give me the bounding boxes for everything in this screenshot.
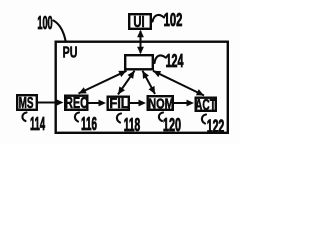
wire FIL to NOM — [130, 102, 143, 104]
leader curve for 100 — [54, 21, 66, 41]
svg-text:NOM: NOM — [148, 95, 174, 112]
arrowhead into REC left (from MS) — [56, 99, 64, 106]
arrowhead down into ACT top — [196, 89, 204, 95]
svg-text:120: 120 — [163, 115, 181, 136]
svg-text:PU: PU — [63, 43, 78, 61]
wire 124 to ACT (fan, double-headed) — [153, 71, 204, 96]
svg-text:116: 116 — [81, 115, 97, 135]
svg-text:124: 124 — [166, 52, 184, 71]
arrowhead into ACT left (from NOM) — [187, 100, 195, 107]
arrowhead up into 124 bottom (ACT fan) — [153, 71, 161, 77]
wire REC to FIL — [89, 102, 103, 104]
svg-text:REC: REC — [65, 94, 88, 111]
svg-text:122: 122 — [207, 117, 225, 138]
block PU (processing unit) outer box — [56, 42, 228, 133]
wire MS to REC — [38, 102, 60, 104]
wire UI to 124 (vertical, double-headed) — [140, 31, 142, 53]
leader hook for 118 — [117, 114, 121, 123]
block 124 — [125, 55, 153, 69]
arrowhead down into NOM top — [149, 86, 156, 94]
arrowhead into NOM left (from FIL) — [139, 100, 147, 107]
arrowhead into FIL left (from REC) — [99, 100, 107, 107]
wire NOM to ACT — [174, 102, 191, 104]
wire 124 to FIL (fan, double-headed) — [118, 71, 135, 95]
svg-text:ACT: ACT — [195, 96, 216, 114]
leader hook for 114 — [22, 113, 26, 122]
arrowhead up into 124 bottom (FIL fan) — [128, 71, 135, 79]
svg-text:MS: MS — [19, 94, 34, 112]
block ACT 122 — [196, 98, 216, 111]
arrowhead down into 124 top — [137, 47, 144, 55]
leader curve for 124 — [155, 55, 166, 63]
block MS 114 — [17, 95, 37, 110]
arrowhead up into 124 bottom (REC fan) — [118, 71, 126, 77]
leader curve for 102 — [153, 15, 165, 22]
block NOM 120 — [148, 96, 173, 110]
svg-text:100: 100 — [37, 14, 52, 34]
svg-text:118: 118 — [124, 116, 140, 136]
leader hook for 120 — [159, 113, 163, 122]
svg-text:114: 114 — [30, 115, 46, 135]
leader hook for 116 — [75, 113, 79, 122]
arrowhead down into REC top — [79, 87, 87, 93]
arrowhead up into UI bottom — [137, 30, 144, 38]
arrowhead down into FIL top — [118, 86, 125, 94]
leader hook for 122 — [202, 115, 206, 124]
arrowhead up into 124 bottom (NOM fan) — [143, 71, 150, 79]
svg-text:102: 102 — [164, 10, 183, 30]
wire 124 to NOM (fan, double-headed) — [143, 71, 156, 94]
block UI 102 — [129, 14, 151, 29]
wire 124 to REC (fan, double-headed) — [79, 71, 127, 94]
block REC 116 — [65, 96, 87, 110]
block FIL 118 — [108, 97, 129, 110]
svg-text:FIL: FIL — [109, 94, 129, 111]
svg-text:UI: UI — [133, 13, 144, 30]
